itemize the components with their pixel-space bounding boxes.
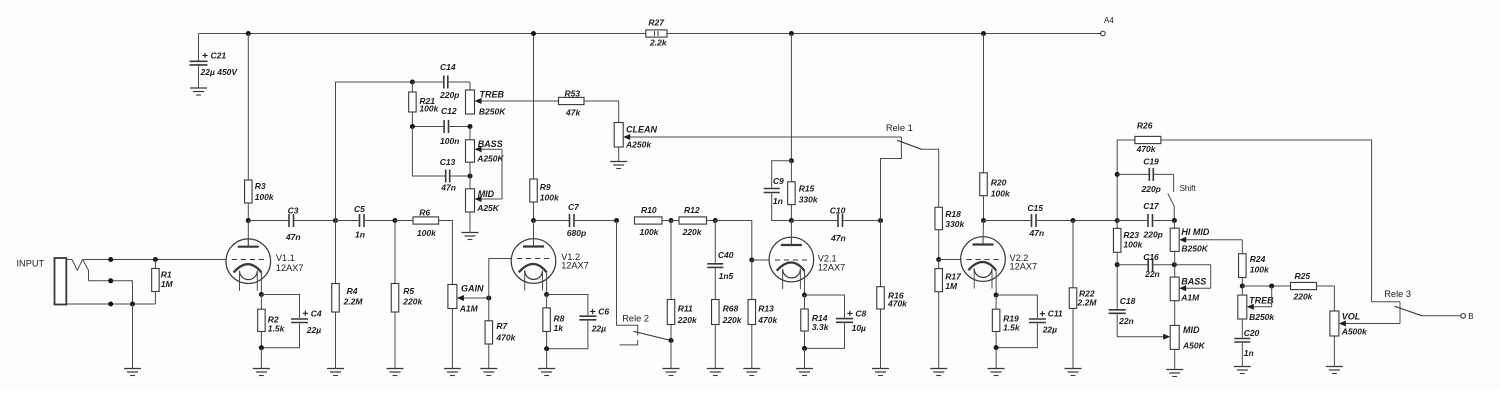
- svg-text:330k: 330k: [945, 219, 965, 229]
- wire R53 to CLEAN pot: [584, 101, 619, 123]
- node tone stack feed: [333, 218, 338, 223]
- relay Rele 3 switch: [1384, 289, 1422, 316]
- wire V2.2 anode lead: [982, 221, 985, 245]
- resistor R53 47k: [559, 89, 585, 118]
- svg-text:1n: 1n: [773, 196, 783, 206]
- svg-text:C15: C15: [1027, 203, 1043, 213]
- svg-text:100k: 100k: [417, 228, 437, 238]
- svg-text:220p: 220p: [1141, 184, 1161, 194]
- ground V1.2 cathode: [538, 369, 555, 376]
- node V2.1 cathode bottom: [802, 346, 807, 351]
- potentiometer MID2 A50K: [1170, 325, 1205, 370]
- wire V1.1 anode lead: [247, 221, 249, 247]
- svg-text:R26: R26: [1137, 121, 1153, 131]
- resistor R7 470k: [485, 298, 517, 369]
- svg-text:1.5k: 1.5k: [1003, 323, 1021, 333]
- terminal A4: [1101, 16, 1115, 36]
- wiper MID2 from C18: [1117, 334, 1170, 340]
- resistor R6 100k (series): [395, 208, 439, 239]
- svg-text:470k: 470k: [1136, 144, 1157, 154]
- ground MID2: [1166, 370, 1183, 377]
- node C12/R21: [410, 124, 415, 129]
- jack tip spring contact: [66, 260, 88, 281]
- wire B+ drop to R15: [790, 34, 792, 161]
- resistor R20 100k (V2.2 plate load): [980, 34, 1011, 221]
- triode V1.2 12AX7: [511, 239, 589, 295]
- ground R5: [387, 369, 404, 376]
- wiper BASS2 loop: [1174, 265, 1210, 292]
- potentiometer TREB B250K: [466, 82, 507, 117]
- node V1.2 cathode bottom: [544, 346, 549, 351]
- svg-text:MID: MID: [1183, 325, 1200, 335]
- svg-text:12AX7: 12AX7: [1010, 262, 1038, 272]
- wire V2.1 grid lead: [752, 259, 769, 261]
- svg-text:470k: 470k: [887, 299, 908, 309]
- svg-text:B: B: [1468, 312, 1473, 321]
- svg-text:A500k: A500k: [1341, 327, 1368, 337]
- node mid row: [468, 174, 473, 179]
- resistor R68 220k: [712, 300, 743, 369]
- svg-text:C40: C40: [718, 250, 734, 260]
- ground V2.2 cathode: [988, 369, 1005, 376]
- svg-text:Rele 1: Rele 1: [886, 123, 913, 133]
- resistor R22 2.2M: [1069, 221, 1097, 369]
- ground GAIN: [444, 369, 461, 376]
- svg-text:A250K: A250K: [476, 154, 504, 164]
- node GAIN wiper/R7: [486, 296, 491, 301]
- svg-text:B250k: B250k: [1249, 312, 1275, 322]
- wire to V2.1 grid: [715, 221, 752, 261]
- svg-text:R17: R17: [945, 272, 962, 282]
- svg-text:2.2k: 2.2k: [649, 38, 668, 48]
- ground V2.1 cathode: [796, 369, 813, 376]
- wire Rele 1 to R18: [922, 149, 939, 207]
- capacitor C4 22u (V1.1 cathode bypass): [261, 295, 322, 348]
- node V1.2 cathode: [544, 292, 549, 297]
- svg-text:12AX7: 12AX7: [818, 263, 846, 273]
- node R15/C9 top: [789, 158, 794, 163]
- node R5/R6: [393, 218, 398, 223]
- ground MID pot: [462, 233, 479, 240]
- capacitor C11 22u (V2.2 cathode bypass): [996, 295, 1063, 348]
- ground C21: [190, 88, 207, 95]
- node R22 top: [1071, 218, 1076, 223]
- resistor R23 100k: [1113, 221, 1143, 265]
- svg-text:2.2M: 2.2M: [343, 297, 364, 307]
- svg-text:220k: 220k: [402, 297, 423, 307]
- node HI MID bottom: [1172, 262, 1177, 267]
- svg-text:R20: R20: [991, 178, 1007, 188]
- wire R6 to GAIN pot: [439, 221, 453, 285]
- relay Rele 1 switch: [886, 123, 922, 149]
- svg-text:R9: R9: [540, 182, 551, 192]
- wire R24-R25 row: [1242, 285, 1290, 287]
- input jack body: [55, 258, 67, 305]
- wiper MID loop: [475, 176, 503, 202]
- capacitor C8 10u (V2.1 cathode bypass): [805, 295, 867, 348]
- svg-text:220p: 220p: [439, 90, 459, 100]
- wire R12 to node: [707, 220, 716, 222]
- ground R13: [743, 369, 760, 376]
- capacitor C13 47n (mid): [412, 127, 470, 193]
- wire R25 to VOL: [1317, 286, 1335, 311]
- resistor R19 1.5k (V2.2 cathode): [992, 295, 1021, 348]
- svg-text:C14: C14: [440, 62, 456, 72]
- node C40 tap: [713, 218, 718, 223]
- svg-text:HI MID: HI MID: [1181, 227, 1209, 237]
- terminal B: [1461, 312, 1474, 321]
- node TREB bottom: [468, 124, 473, 129]
- svg-text:22µ: 22µ: [1042, 325, 1057, 335]
- svg-text:C16: C16: [1143, 252, 1159, 262]
- node jack tip: [108, 257, 113, 262]
- svg-text:47n: 47n: [440, 183, 456, 193]
- INPUT label: [17, 259, 45, 269]
- svg-text:Rele 2: Rele 2: [622, 314, 649, 324]
- node V2.2 cathode: [994, 293, 999, 298]
- node jack sleeve: [108, 302, 113, 307]
- wire C5 to node: [364, 220, 395, 222]
- node V1.1 cathode: [259, 292, 264, 297]
- svg-text:C11: C11: [1048, 309, 1063, 319]
- resistor R3 100k (V1.1 plate load): [245, 34, 275, 221]
- triode V2.1 12AX7: [769, 237, 845, 295]
- node TREB2 wiper tie: [1269, 284, 1274, 289]
- capacitor C19 220p: [1117, 157, 1173, 195]
- capacitor C14 220p (treble): [412, 62, 470, 100]
- wiper BASS loop: [475, 146, 503, 176]
- svg-text:A25K: A25K: [476, 203, 500, 213]
- capacitor C40 1n5: [707, 221, 733, 300]
- resistor R17 1M (grid leak): [935, 260, 962, 369]
- wire R26 feed riser: [1117, 140, 1135, 221]
- wire GAIN wiper to V1.2 grid: [489, 259, 512, 299]
- svg-text:C8: C8: [855, 308, 866, 318]
- wiper HI MID to R24: [1179, 237, 1242, 254]
- svg-text:10µ: 10µ: [852, 323, 866, 333]
- node V1.1 cathode bottom: [259, 345, 264, 350]
- wire CLEAN bottom: [618, 147, 620, 162]
- resistor R2 1.5k (V1.1 cathode): [258, 295, 286, 348]
- svg-text:R6: R6: [419, 208, 430, 218]
- svg-text:V1.1: V1.1: [276, 253, 295, 263]
- ground R16: [872, 369, 889, 376]
- ground R4: [327, 369, 344, 376]
- relay Rele 2 switch: [617, 221, 672, 345]
- potentiometer BASS A250K: [466, 127, 505, 177]
- ground input: [124, 369, 141, 376]
- svg-text:100k: 100k: [419, 104, 439, 114]
- svg-text:VOL: VOL: [1342, 312, 1361, 322]
- wire C15 to node: [1036, 220, 1073, 222]
- svg-text:330k: 330k: [799, 195, 819, 205]
- svg-text:C19: C19: [1143, 157, 1159, 167]
- svg-text:100k: 100k: [991, 189, 1011, 199]
- svg-text:A1M: A1M: [1180, 293, 1200, 303]
- node input ground junction: [130, 302, 135, 307]
- svg-text:C3: C3: [288, 206, 299, 216]
- svg-text:R7: R7: [496, 321, 508, 331]
- capacitor C10 47n (coupling): [791, 206, 845, 244]
- wire C10 to node: [843, 220, 881, 222]
- resistor R26 470k: [1135, 121, 1161, 155]
- svg-text:R10: R10: [641, 205, 657, 215]
- node R11 top: [669, 218, 674, 223]
- svg-text:A4: A4: [1104, 16, 1114, 25]
- wire C7 to node: [574, 220, 617, 222]
- svg-text:CLEAN: CLEAN: [626, 125, 657, 135]
- svg-text:100k: 100k: [255, 192, 275, 202]
- ground CLEAN: [610, 162, 627, 169]
- svg-text:22µ: 22µ: [306, 325, 321, 335]
- svg-text:BASS: BASS: [1181, 277, 1206, 287]
- svg-text:C21: C21: [211, 51, 227, 61]
- svg-text:R27: R27: [648, 18, 665, 28]
- svg-text:R5: R5: [403, 286, 414, 296]
- svg-text:470k: 470k: [495, 333, 516, 343]
- capacitor C20 1n: [1234, 319, 1259, 367]
- resistor R14 3.3k (V2.1 cathode): [801, 295, 830, 348]
- node V1.1 anode: [246, 218, 251, 223]
- wire grid row V1.1: [83, 259, 226, 261]
- node V2.1 cathode: [802, 293, 807, 298]
- capacitor C5 1n (coupling): [336, 204, 366, 240]
- potentiometer HI MID B250K: [1170, 221, 1210, 265]
- capacitor C12 100n (bass): [412, 106, 470, 146]
- wiper CLEAN wire to Rele 1: [623, 134, 901, 140]
- wire Rele 3 to B: [1422, 315, 1461, 317]
- resistor R8 1k (V1.2 cathode): [543, 295, 565, 349]
- svg-text:R13: R13: [758, 304, 774, 314]
- svg-text:C9: C9: [773, 176, 784, 186]
- capacitor C7 680p (coupling): [534, 202, 587, 238]
- wire to second tone stack: [1073, 220, 1117, 222]
- svg-text:C10: C10: [830, 206, 846, 216]
- wire tone feed riser: [336, 82, 413, 221]
- svg-text:B250K: B250K: [1181, 244, 1208, 254]
- svg-text:220k: 220k: [1293, 292, 1314, 302]
- resistor R12 220k (series): [679, 205, 707, 237]
- wire input ground drop: [132, 304, 134, 369]
- svg-text:R1: R1: [161, 270, 172, 280]
- wire B+ rail left segment: [199, 33, 646, 35]
- svg-text:3.3k: 3.3k: [812, 322, 830, 332]
- node V2.2 cathode bottom: [994, 345, 999, 350]
- node R24 bottom: [1240, 284, 1245, 289]
- node C16 left: [1115, 262, 1120, 267]
- triode V2.2 12AX7: [961, 237, 1037, 295]
- resistor R11 220k: [667, 221, 698, 341]
- wire R26 to Rele 3: [1161, 140, 1400, 302]
- resistor R4 2.2M: [332, 221, 364, 369]
- wire jack switch row: [89, 281, 133, 304]
- svg-text:1n: 1n: [1244, 348, 1254, 358]
- svg-text:1k: 1k: [554, 323, 565, 333]
- svg-text:47n: 47n: [285, 232, 301, 242]
- svg-text:100k: 100k: [540, 193, 560, 203]
- svg-text:C17: C17: [1143, 201, 1160, 211]
- resistor R16 470k: [877, 221, 908, 369]
- node jack switch: [108, 278, 113, 283]
- svg-text:1M: 1M: [161, 279, 174, 289]
- svg-text:100n: 100n: [440, 136, 459, 146]
- node C10/R16: [878, 218, 883, 223]
- resistor R10 100k (series): [635, 205, 663, 237]
- capacitor C21 22u 450V (filter): [190, 34, 239, 88]
- svg-text:Shift: Shift: [1180, 184, 1197, 193]
- capacitor C6 22u (V1.2 cathode bypass): [547, 295, 610, 349]
- svg-text:R68: R68: [723, 304, 739, 314]
- svg-text:1.5k: 1.5k: [268, 324, 286, 334]
- svg-text:47k: 47k: [565, 108, 581, 118]
- svg-text:A50K: A50K: [1182, 341, 1206, 351]
- svg-text:TREB: TREB: [1249, 296, 1274, 306]
- node R21 top: [410, 80, 415, 85]
- potentiometer VOL A500k: [1330, 311, 1368, 367]
- svg-text:47n: 47n: [1029, 228, 1045, 238]
- svg-text:100k: 100k: [640, 227, 660, 237]
- svg-text:220p: 220p: [1143, 230, 1163, 240]
- svg-text:R3: R3: [255, 181, 266, 191]
- svg-text:C5: C5: [354, 204, 365, 214]
- ground R68: [707, 369, 724, 376]
- node B+/R9: [531, 31, 536, 36]
- node V1.2 anode: [531, 218, 536, 223]
- ground VOL: [1326, 367, 1343, 374]
- wire V2.2 cathode ground drop: [995, 348, 997, 369]
- triode V1.1 12AX7: [226, 239, 303, 295]
- resistor R21 100k (slope): [409, 82, 440, 127]
- ground R17: [930, 369, 947, 376]
- svg-text:A1M: A1M: [459, 304, 479, 314]
- switch Shift: [1168, 174, 1197, 220]
- svg-text:INPUT: INPUT: [17, 259, 45, 269]
- svg-text:R18: R18: [945, 209, 961, 219]
- wire V1.2 cathode ground drop: [546, 349, 548, 369]
- node B+/R3: [246, 31, 251, 36]
- svg-text:R25: R25: [1295, 271, 1311, 281]
- node R11 bottom: [669, 338, 674, 343]
- potentiometer BASS2 A1M: [1170, 265, 1206, 326]
- resistor R27 2.2k (in B+ rail): [646, 18, 668, 48]
- svg-text:R24: R24: [1250, 254, 1266, 264]
- svg-text:TREB: TREB: [480, 90, 505, 100]
- svg-text:220k: 220k: [677, 315, 698, 325]
- svg-text:1n5: 1n5: [719, 271, 734, 281]
- wire R11 ground drop: [670, 341, 672, 369]
- svg-text:R12: R12: [684, 205, 700, 215]
- svg-text:12AX7: 12AX7: [561, 261, 589, 271]
- node B+/R20: [981, 31, 986, 36]
- capacitor C16 22n: [1117, 252, 1174, 279]
- capacitor C15 47n (coupling): [984, 203, 1045, 238]
- node Rele 2 tap: [614, 218, 619, 223]
- svg-text:22n: 22n: [1144, 269, 1160, 279]
- node V2.1 grid: [749, 258, 754, 263]
- capacitor C3 47n (coupling): [248, 206, 300, 243]
- svg-text:1n: 1n: [355, 230, 365, 240]
- svg-text:R8: R8: [554, 314, 565, 324]
- svg-text:C13: C13: [440, 157, 456, 167]
- node R1 top: [153, 257, 158, 262]
- svg-text:100k: 100k: [1250, 265, 1270, 275]
- wire V2.1 cathode ground drop: [804, 348, 806, 368]
- resistor R18 330k: [935, 207, 966, 259]
- node HI MID top: [1172, 218, 1177, 223]
- svg-text:R11: R11: [678, 304, 693, 314]
- ground R7: [480, 369, 497, 376]
- svg-text:R23: R23: [1123, 230, 1139, 240]
- svg-text:B250K: B250K: [479, 107, 506, 117]
- wiper TREB to R53: [475, 98, 559, 104]
- svg-text:22µ: 22µ: [591, 324, 606, 334]
- svg-text:220k: 220k: [722, 315, 743, 325]
- svg-text:R15: R15: [799, 184, 815, 194]
- resistor R15 330k: [788, 161, 819, 221]
- svg-text:C6: C6: [598, 307, 609, 317]
- wire jack sleeve row: [66, 303, 155, 305]
- svg-text:C20: C20: [1244, 328, 1260, 338]
- ground C20: [1234, 367, 1251, 374]
- svg-text:220k: 220k: [682, 227, 703, 237]
- svg-text:A250k: A250k: [625, 140, 652, 150]
- svg-text:1M: 1M: [945, 281, 958, 291]
- resistor R25 220k (series): [1291, 271, 1317, 302]
- wire Rele 1 pole jog: [881, 137, 902, 221]
- wiper GAIN: [457, 295, 489, 301]
- resistor R1 1M (grid leak): [152, 260, 174, 305]
- node V2.2 anode: [981, 218, 986, 223]
- wire V2.2 grid lead: [939, 259, 961, 261]
- potentiometer GAIN A1M: [448, 284, 484, 369]
- svg-text:22µ 450V: 22µ 450V: [200, 67, 239, 77]
- svg-text:R53: R53: [565, 89, 581, 99]
- resistor R5 220k: [391, 221, 423, 369]
- svg-text:47n: 47n: [830, 233, 846, 243]
- resistor R9 100k (V1.2 plate load): [530, 34, 560, 221]
- node V2.2 grid: [936, 257, 941, 262]
- node V2.1 anode: [789, 218, 794, 223]
- potentiometer TREB2 B250k: [1238, 286, 1276, 322]
- svg-text:470k: 470k: [757, 315, 778, 325]
- svg-text:2.2M: 2.2M: [1077, 298, 1098, 308]
- wire V2.1 anode lead: [790, 221, 792, 245]
- ground R11: [663, 369, 680, 376]
- resistor R24 100k: [1239, 254, 1270, 286]
- svg-text:22n: 22n: [1118, 316, 1134, 326]
- svg-text:C4: C4: [311, 308, 322, 318]
- capacitor C18 22n: [1109, 265, 1136, 337]
- wire B+ rail right segment: [667, 33, 1101, 35]
- ground R22: [1065, 369, 1082, 376]
- ground V1.1 cathode: [253, 369, 270, 376]
- wire V1.1 cathode ground drop: [260, 348, 262, 369]
- capacitor C9 1n (bypass): [764, 161, 792, 221]
- node stack2 left column: [1115, 218, 1120, 223]
- wire R10-R12: [662, 220, 679, 222]
- potentiometer MID A25K: [466, 176, 500, 233]
- svg-text:Rele 3: Rele 3: [1384, 289, 1411, 299]
- node C19 left: [1115, 172, 1120, 177]
- capacitor C17 220p (series): [1117, 201, 1174, 240]
- resistor R13 470k (grid leak): [748, 260, 778, 369]
- wire V1.2 anode lead: [533, 221, 535, 247]
- svg-text:100k: 100k: [1123, 240, 1143, 250]
- wiper VOL to Rele 3: [1339, 302, 1400, 327]
- svg-text:C18: C18: [1120, 296, 1136, 306]
- wiper TREB2 loop: [1247, 286, 1272, 310]
- svg-text:GAIN: GAIN: [461, 284, 484, 294]
